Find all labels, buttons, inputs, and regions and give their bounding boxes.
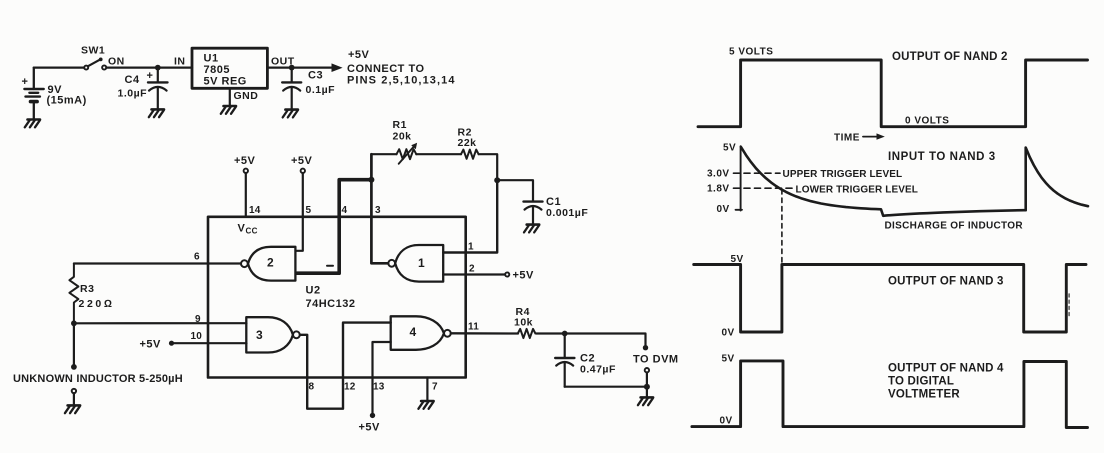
svg-text:U2: U2 (306, 285, 321, 297)
svg-text:7: 7 (432, 382, 438, 393)
svg-text:TO DIGITAL: TO DIGITAL (888, 376, 954, 388)
svg-text:ON: ON (108, 56, 125, 68)
svg-text:2: 2 (469, 264, 475, 275)
node (C4 junction) (155, 65, 161, 71)
node (C3 junction) (289, 65, 295, 71)
svg-text:TIME: TIME (834, 133, 860, 144)
svg-text:4: 4 (410, 325, 417, 339)
wire pin 3 vertical / feedback (371, 154, 388, 263)
ground (C1) (524, 225, 539, 233)
wire U1 GND pin (229, 88, 231, 105)
battery B1 9V (24, 68, 43, 119)
wire pin 2 to +5V (443, 273, 505, 275)
svg-text:12: 12 (344, 382, 356, 393)
resistor R3 220 (69, 264, 78, 324)
ground (C3) (283, 110, 298, 118)
svg-text:OUTPUT OF NAND 4: OUTPUT OF NAND 4 (888, 363, 1004, 375)
svg-text:3: 3 (256, 328, 263, 342)
wire pin 4 thick branch (297, 180, 371, 274)
svg-text:0.001µF: 0.001µF (546, 207, 588, 219)
svg-text:5V: 5V (731, 254, 744, 265)
svg-text:1.8V: 1.8V (707, 184, 730, 195)
svg-text:4: 4 (342, 205, 348, 216)
wire node to C1 (497, 180, 533, 201)
waveform output of NAND 4 (692, 361, 1088, 428)
svg-text:0 VOLTS: 0 VOLTS (905, 116, 949, 127)
svg-text:0.47µF: 0.47µF (580, 364, 616, 376)
svg-text:0V: 0V (720, 416, 733, 427)
dashed mark right (1068, 294, 1070, 318)
svg-text:+5V: +5V (359, 422, 381, 434)
ground (inductor) (65, 405, 80, 413)
svg-text:R1: R1 (393, 119, 407, 131)
waveform input to NAND 3 curve (741, 147, 1088, 216)
svg-text:8: 8 (309, 382, 315, 393)
svg-text:0V: 0V (722, 328, 735, 339)
svg-text:5V: 5V (723, 143, 736, 154)
terminal TO DVM bottom (645, 368, 649, 372)
ground (C4) (149, 109, 164, 117)
svg-text:14: 14 (249, 205, 261, 216)
switch SW1 (84, 58, 106, 70)
svg-text:UNKNOWN INDUCTOR 5-250µH: UNKNOWN INDUCTOR 5-250µH (13, 373, 183, 385)
svg-text:+5V: +5V (291, 155, 313, 167)
wire pin 11 to R4 (451, 332, 518, 335)
svg-text:PINS 2,5,10,13,14: PINS 2,5,10,13,14 (347, 75, 456, 87)
svg-text:+5V: +5V (513, 270, 535, 282)
svg-text:TO DVM: TO DVM (633, 354, 679, 366)
svg-text:+5V: +5V (348, 49, 370, 61)
ground (battery) (25, 120, 40, 128)
svg-text:6: 6 (194, 252, 200, 263)
svg-text:CONNECT TO: CONNECT TO (347, 63, 425, 75)
ground (U1) (221, 106, 236, 114)
waveform input to NAND 3 axis (740, 146, 742, 210)
svg-text:VOLTMETER: VOLTMETER (888, 389, 960, 401)
wire switch to U1 (106, 66, 192, 68)
capacitor C4 (148, 68, 168, 109)
node (R2/C1) (494, 177, 500, 183)
svg-text:74HC132: 74HC132 (306, 298, 356, 310)
dashed lower trigger level (734, 187, 794, 189)
wire node to pin 1 (443, 180, 497, 252)
wire pin 7 to ground (426, 378, 428, 401)
IC box U2 (208, 217, 466, 378)
resistor R4 10k (518, 329, 536, 338)
svg-text:220Ω: 220Ω (79, 298, 115, 310)
svg-text:GND: GND (234, 90, 259, 102)
waveform output of NAND 3 (694, 265, 1086, 333)
svg-text:10k: 10k (514, 317, 533, 329)
wire C2 bottom to DVM ground (565, 386, 647, 388)
svg-text:R3: R3 (80, 283, 94, 295)
wire R4 to DVM (536, 334, 645, 346)
svg-text:13: 13 (373, 382, 385, 393)
wire pin 9 (74, 322, 247, 324)
capacitor C1 (524, 202, 543, 225)
node (DVM ground junction) (644, 384, 650, 390)
svg-text:1: 1 (468, 242, 474, 253)
terminal TO DVM top (643, 345, 648, 350)
svg-text:OUTPUT OF NAND 3: OUTPUT OF NAND 3 (888, 276, 1004, 288)
wire battery to switch (34, 66, 84, 68)
svg-text:V: V (238, 223, 246, 235)
svg-text:1: 1 (418, 256, 425, 270)
svg-text:CC: CC (246, 227, 258, 236)
svg-text:+5V: +5V (140, 339, 162, 351)
svg-text:3.0V: 3.0V (707, 169, 730, 180)
svg-text:22k: 22k (458, 137, 477, 149)
wire stub (gate 2 input dash) (327, 265, 333, 267)
regulator U1 7805 (192, 48, 267, 88)
capacitor C3 (282, 68, 301, 110)
dashed upper trigger level (734, 172, 781, 174)
svg-text:9: 9 (195, 314, 201, 325)
wire U1 out with arrow (267, 66, 334, 68)
node (R3 bottom / pin 9) (71, 320, 77, 326)
svg-text:UPPER TRIGGER LEVEL: UPPER TRIGGER LEVEL (783, 169, 903, 180)
svg-text:20k: 20k (393, 131, 412, 143)
nand gate U2a (2) (248, 247, 295, 281)
svg-text:11: 11 (468, 322, 479, 333)
node (C2 junction) (562, 331, 568, 337)
capacitor C2 (555, 334, 574, 387)
svg-text:0.1µF: 0.1µF (306, 84, 336, 96)
nand gate U2b (1) (395, 245, 443, 282)
wire pin 13 to +5V (373, 342, 391, 413)
svg-text:DISCHARGE OF INDUCTOR: DISCHARGE OF INDUCTOR (885, 221, 1024, 232)
wire pin 5 to gate 2 input (296, 173, 303, 251)
svg-text:C4: C4 (125, 74, 140, 86)
svg-text:3: 3 (375, 205, 381, 216)
svg-text:IN: IN (174, 56, 186, 68)
svg-text:(15mA): (15mA) (47, 95, 87, 107)
svg-text:10: 10 (191, 331, 203, 342)
svg-text:5 VOLTS: 5 VOLTS (729, 47, 773, 58)
wire R1 to R2 (416, 153, 461, 155)
svg-text:+5V: +5V (234, 155, 256, 167)
svg-text:+: + (22, 76, 29, 88)
wire R2 right down to node (479, 154, 498, 180)
wire pin 10 from +5V (172, 342, 247, 344)
svg-text:1.0µF: 1.0µF (118, 88, 148, 100)
node (R1 left) (368, 177, 374, 183)
svg-text:5V: 5V (722, 354, 735, 365)
svg-text:+: + (147, 70, 154, 82)
svg-text:SW1: SW1 (81, 45, 105, 57)
wire pin 6 (74, 262, 241, 264)
waveform output of NAND 2 (698, 60, 1088, 127)
nand gate U2d (4) (391, 316, 444, 350)
nand gate U2c (3) (246, 317, 293, 352)
wire gate 3 output to pin 8 loop to pin 12 (300, 323, 391, 409)
wire pin 14 (245, 173, 247, 217)
resistor R2 22k (461, 150, 479, 159)
dashed vertical trigger line (781, 190, 783, 263)
svg-text:INPUT TO NAND 3: INPUT TO NAND 3 (888, 151, 996, 163)
ground (pin 7) (418, 401, 433, 409)
svg-text:5V REG: 5V REG (204, 76, 247, 88)
svg-text:5: 5 (306, 205, 312, 216)
wire top to R1 (371, 153, 396, 155)
unknown inductor terminals (73, 323, 75, 367)
svg-text:C3: C3 (308, 70, 323, 82)
svg-text:LOWER TRIGGER LEVEL: LOWER TRIGGER LEVEL (796, 185, 918, 196)
+5V terminal pin 14 (244, 169, 248, 173)
svg-text:U1: U1 (204, 53, 219, 65)
+5V terminal pin 5 (301, 169, 305, 173)
resistor R1 20k (pot) (397, 149, 417, 159)
svg-text:2: 2 (267, 256, 274, 270)
svg-text:7805: 7805 (204, 64, 230, 76)
svg-text:OUTPUT OF NAND 2: OUTPUT OF NAND 2 (892, 51, 1008, 63)
ground (DVM) (638, 397, 653, 405)
svg-text:0V: 0V (717, 204, 730, 215)
